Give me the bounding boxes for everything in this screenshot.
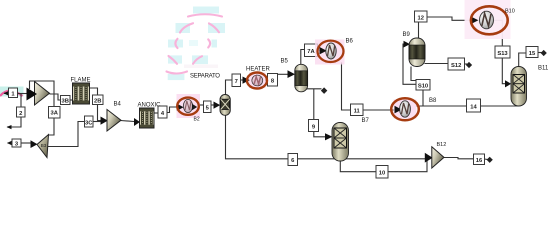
- watermark cyan band at box 1: [0, 87, 24, 97]
- svg-text:3B: 3B: [61, 99, 68, 105]
- stream box 10: [376, 166, 388, 179]
- cooler B6 highlighted: [315, 40, 345, 65]
- wire B9 bottom to S10: [411, 67, 416, 81]
- wire ANOXIC to box4: [154, 112, 158, 114]
- svg-text:S12: S12: [451, 63, 461, 69]
- watermark cyan patches top center: [168, 7, 225, 81]
- stream box S10: [416, 80, 430, 91]
- wire 3B to FLAME: [70, 99, 73, 101]
- svg-text:3C: 3C: [85, 120, 93, 126]
- svg-text:B11: B11: [538, 66, 549, 72]
- wire box16 diamond end: [485, 157, 493, 163]
- wire junction down to box2: [20, 94, 22, 108]
- wire B4 out to ANOXIC: [121, 121, 135, 122]
- svg-text:B8: B8: [429, 98, 437, 104]
- wire separator bottom long line to B12: [226, 115, 426, 159]
- svg-text:11: 11: [354, 109, 361, 115]
- wire recycle loop into B1 top: [30, 81, 55, 135]
- wire stream1 outer arrow: [4, 91, 9, 95]
- wire B5 bottom out with diamond end: [304, 87, 327, 94]
- wire box1 to B1: [18, 93, 28, 95]
- column B5: [295, 64, 308, 92]
- column B7: [332, 123, 349, 162]
- svg-text:S13: S13: [497, 51, 508, 57]
- wire FLAME to 2B: [90, 88, 98, 95]
- stream box 16: [474, 154, 485, 165]
- arrow into B4: [101, 117, 108, 125]
- stream box 7A: [305, 44, 318, 57]
- svg-text:B5: B5: [281, 59, 289, 65]
- stream box 8: [268, 74, 278, 87]
- stream box 11: [351, 104, 364, 116]
- svg-text:2B: 2B: [94, 98, 101, 104]
- stream box 6: [288, 154, 298, 166]
- wire box11 to B8: [363, 109, 396, 111]
- stream box 7: [232, 74, 241, 87]
- svg-text:7: 7: [235, 79, 238, 85]
- wire separator top to box7: [226, 80, 232, 95]
- wire box2 exit left: [7, 117, 22, 129]
- svg-text:SEPARATO: SEPARATO: [190, 74, 220, 80]
- svg-text:B3: B3: [41, 143, 47, 148]
- svg-text:S10: S10: [418, 84, 428, 90]
- wire B9 top to box12: [418, 22, 420, 38]
- svg-text:7A: 7A: [307, 49, 315, 55]
- watermark pink arc at box 1: [0, 91, 23, 96]
- wire B1 out to 3B: [50, 94, 61, 100]
- wire box12 to B10: [427, 17, 472, 20]
- wire 7A to B6: [316, 50, 321, 51]
- svg-text:B2: B2: [194, 117, 200, 123]
- stream box 4: [158, 106, 167, 118]
- svg-text:2: 2: [19, 111, 22, 117]
- stream box S12: [448, 58, 465, 70]
- arrow into B9: [404, 41, 411, 48]
- stream box 12: [415, 11, 428, 22]
- wire stream3 outer arrow: [7, 141, 12, 145]
- wire box3 to B3: [21, 142, 31, 144]
- mixer B1: [27, 82, 50, 106]
- wire B7 bottom through box10 to B12: [340, 159, 427, 172]
- wire B12 out to box16: [444, 158, 474, 159]
- wire B6 down to box11: [342, 63, 351, 111]
- svg-text:B7: B7: [362, 118, 370, 124]
- svg-text:B4: B4: [114, 102, 122, 108]
- wire B10 out through S13 to B11: [494, 20, 511, 87]
- wire B9 right to S12: [425, 63, 449, 65]
- mixer B12: [432, 147, 444, 168]
- cooler B8 highlighted: [391, 98, 419, 120]
- stream box S13: [495, 46, 510, 58]
- wire 2B down to B4: [98, 105, 101, 121]
- svg-text:3A: 3A: [50, 111, 58, 117]
- stream box 9: [309, 120, 319, 132]
- wire B11 top to box15: [519, 53, 526, 67]
- stream box 3B: [61, 96, 71, 105]
- wire box15 diamond end: [538, 50, 547, 56]
- wire 3C to B4: [93, 121, 101, 123]
- column B9: [409, 38, 425, 67]
- wire S12 diamond end: [465, 62, 473, 68]
- stream box 5: [204, 101, 212, 113]
- wire B3 out to 3C: [48, 122, 85, 147]
- pump B2 highlighted: [177, 94, 201, 123]
- svg-text:B9: B9: [403, 32, 411, 38]
- compressor B4: [107, 110, 121, 132]
- column B11: [511, 67, 527, 107]
- wire lane into B9 feed: [403, 44, 416, 84]
- wire junction down to box9: [313, 89, 315, 120]
- svg-text:14: 14: [470, 105, 477, 111]
- watermark pink arcs top center: [167, 14, 223, 73]
- wire box9 to B7: [314, 132, 333, 141]
- arrow into B2: [177, 104, 184, 111]
- exchanger B10 highlighted: [465, 0, 511, 39]
- svg-text:FLAME: FLAME: [71, 78, 91, 84]
- reactor FLAME: [73, 83, 90, 104]
- svg-text:12: 12: [417, 15, 423, 21]
- wire box4 to B2: [166, 107, 178, 113]
- stream box 3: [12, 139, 21, 148]
- svg-text:B12: B12: [437, 142, 447, 148]
- svg-text:B10: B10: [505, 9, 515, 15]
- stream box 3C: [85, 116, 94, 127]
- svg-text:15: 15: [529, 51, 536, 57]
- reactor ANOXIC: [140, 108, 155, 128]
- svg-text:B6: B6: [346, 39, 354, 45]
- wire S10 drop to line: [422, 90, 424, 106]
- stream box 2B: [93, 95, 104, 105]
- stream box 14: [467, 99, 481, 112]
- wire box8 to B5: [278, 70, 296, 78]
- svg-text:10: 10: [379, 171, 385, 177]
- heater HEATER highlighted: [243, 73, 268, 89]
- stream box 2: [17, 107, 26, 117]
- arrow into B12: [425, 153, 433, 163]
- stream box 3A: [49, 107, 61, 119]
- wire box5 to separator: [212, 102, 221, 109]
- stream box 15: [526, 47, 538, 58]
- wire box7 to HEATER: [241, 79, 245, 81]
- wire HEATER to box8: [266, 79, 268, 81]
- stream box 1: [9, 88, 18, 98]
- svg-text:16: 16: [476, 158, 483, 164]
- wire B2 to box5: [199, 104, 205, 106]
- splitter B3: [37, 135, 49, 158]
- arrow into B3: [31, 140, 38, 148]
- wire B8 to box14 to B11 bottom: [417, 102, 518, 106]
- separator flash vessel: [220, 95, 230, 116]
- arrow into ANOXIC: [134, 118, 140, 126]
- wire B5 top to 7A: [301, 50, 305, 65]
- svg-text:HEATER: HEATER: [246, 67, 271, 73]
